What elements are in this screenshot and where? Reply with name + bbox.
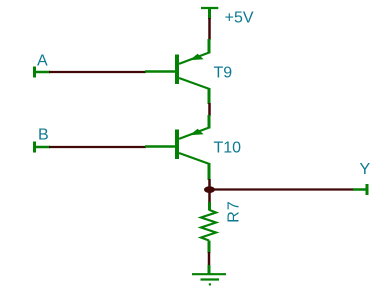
- wire +5V to T9 emitter: [208, 18, 211, 40]
- transistor T10: [177, 115, 210, 180]
- wire T10 emitter to output node: [208, 179, 211, 187]
- ground: [192, 265, 226, 284]
- resistor R7: [201, 202, 216, 253]
- T10 arrow: [190, 129, 204, 136]
- emitter lead down: [179, 153, 210, 164]
- wire T9 collector to T10 collector: [208, 103, 211, 116]
- wire node to resistor: [208, 193, 211, 204]
- svg-text:A: A: [37, 53, 48, 70]
- wire A base lead: [145, 70, 176, 73]
- svg-text:Y: Y: [360, 161, 371, 178]
- wire B lead green: [36, 146, 50, 149]
- wire A lead green: [36, 71, 50, 74]
- wire B maroon: [49, 146, 146, 148]
- node Y terminal: [366, 184, 369, 195]
- transistor T9: [177, 39, 210, 104]
- +5V power symbol: [201, 8, 218, 19]
- emitter lead up: [208, 39, 211, 54]
- collector lead up: [208, 115, 211, 129]
- svg-text:T10: T10: [214, 140, 242, 157]
- svg-text:R7: R7: [226, 200, 243, 222]
- base bar: [175, 55, 179, 85]
- svg-text:+5V: +5V: [225, 10, 254, 27]
- svg-text:B: B: [38, 127, 49, 144]
- node A terminal: [33, 67, 36, 78]
- collector lead down: [179, 78, 210, 89]
- wire Y lead green: [353, 188, 366, 191]
- wire node to Y: [213, 188, 354, 190]
- junction node dot: [204, 186, 215, 193]
- node B terminal: [33, 142, 36, 153]
- svg-text:T9: T9: [214, 65, 233, 82]
- wire B base lead: [145, 145, 176, 148]
- wire A maroon: [49, 71, 146, 73]
- base bar: [175, 130, 179, 160]
- wire resistor to ground: [208, 252, 211, 266]
- T9 arrow: [190, 54, 204, 61]
